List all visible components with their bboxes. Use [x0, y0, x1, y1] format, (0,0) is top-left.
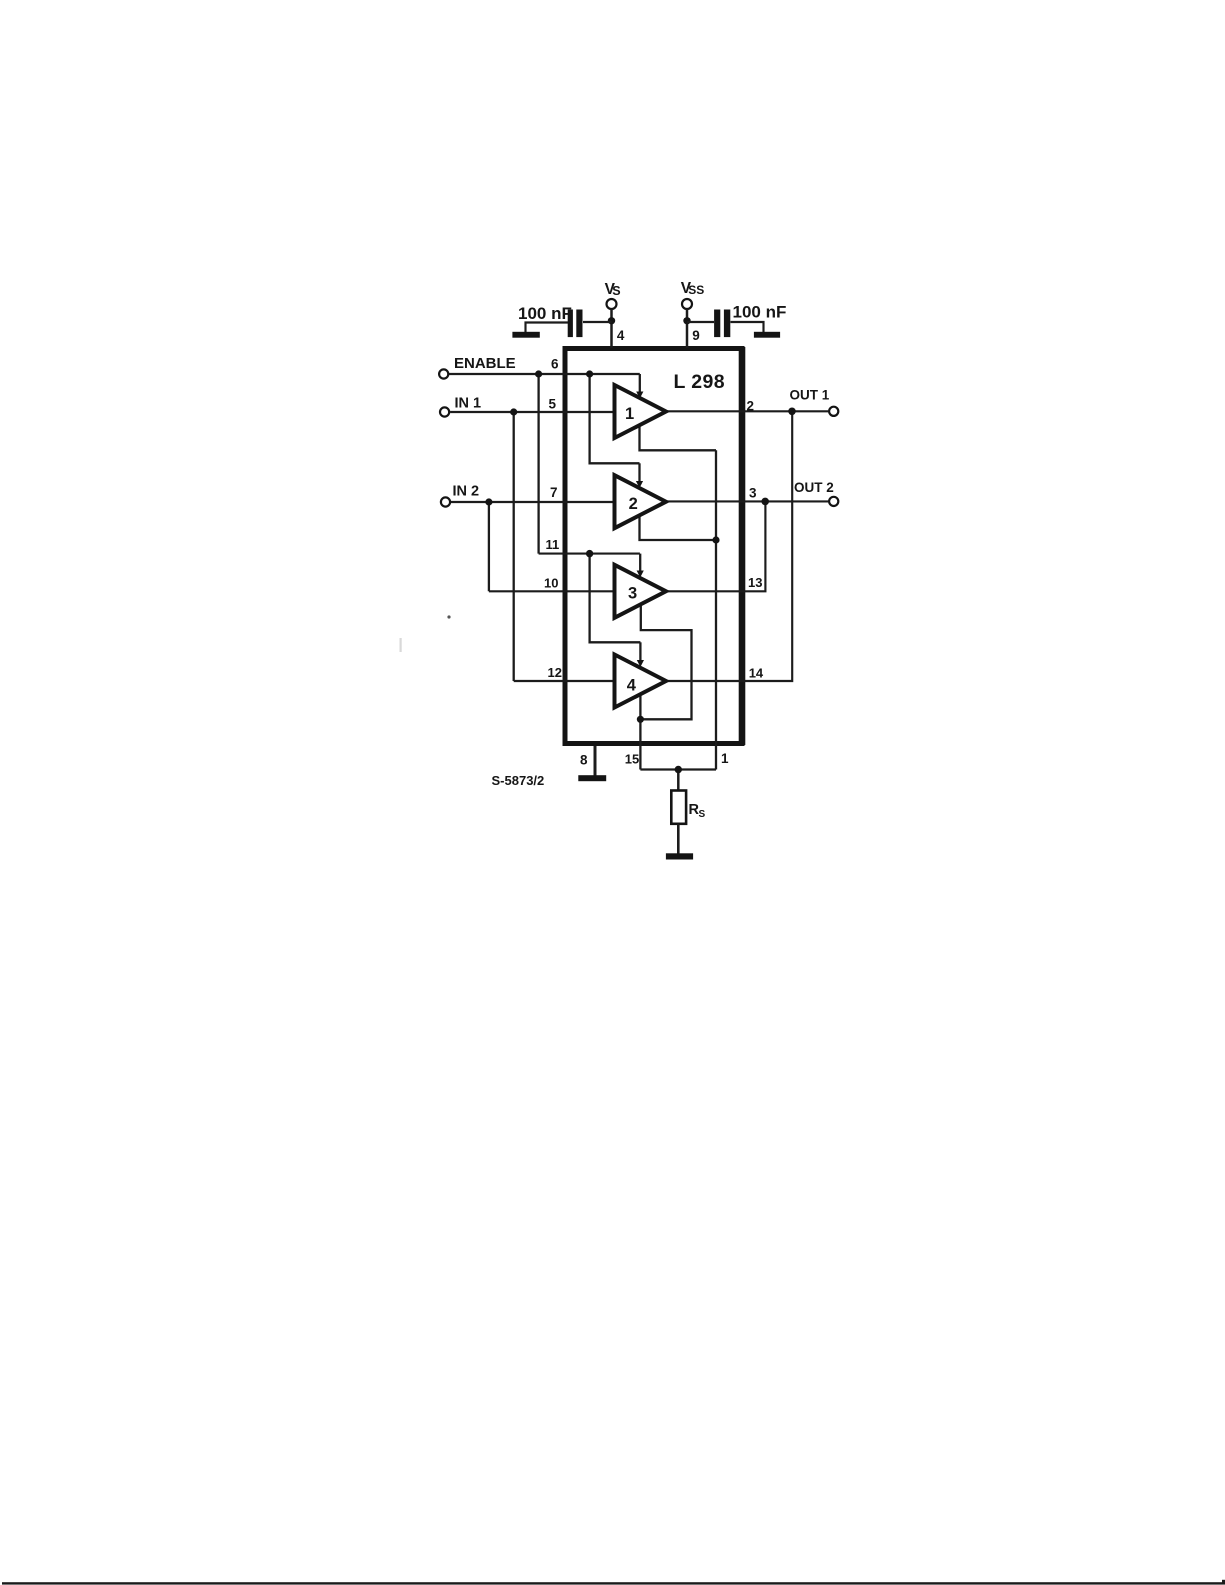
wire C2 right lead	[731, 322, 764, 332]
wire IN1 external vertical to pin 12	[513, 412, 515, 681]
wire enable arrow into amp 1	[639, 374, 641, 393]
wire ENABLE row pin 6	[449, 373, 640, 375]
wire enable arrow into amp 4	[639, 642, 641, 661]
svg-text:9: 9	[692, 328, 700, 343]
wire pin 12 row	[514, 680, 615, 682]
wire amp3 sense detour	[640, 604, 691, 720]
terminal OUT1	[829, 407, 838, 416]
svg-text:S: S	[699, 809, 706, 820]
terminal IN1	[440, 407, 449, 416]
wire IN1 row pin 5	[450, 411, 614, 413]
node IN1 junction pin 5	[510, 408, 517, 415]
wire amp4 sense to pin 15	[639, 694, 641, 770]
svg-text:12: 12	[548, 665, 562, 680]
wire IN2 row pin 7	[451, 501, 615, 503]
node Vs junction	[608, 317, 615, 324]
node Rs junction	[675, 766, 682, 773]
amp U2 driver 2	[615, 475, 667, 528]
svg-text:OUT 2: OUT 2	[794, 480, 834, 495]
IC right edge thickening	[739, 347, 746, 745]
wire ENABLE external vertical to pin 11	[537, 374, 539, 554]
supply Vss terminal	[682, 299, 692, 309]
capacitor C2 100nF right	[714, 310, 720, 338]
wire enable arrow into amp 3	[639, 554, 641, 572]
amp U1 driver 1	[615, 385, 667, 438]
wire Rs bottom	[677, 824, 680, 854]
node OUT1 junction	[788, 408, 796, 416]
svg-text:7: 7	[550, 485, 558, 500]
svg-text:S: S	[612, 284, 620, 298]
wire amp2 output to OUT2 pin 3	[666, 500, 828, 502]
node enable A internal junction	[586, 370, 593, 377]
wire enable branch to amp 2	[590, 374, 640, 463]
svg-text:2: 2	[629, 495, 638, 513]
wire enable branch to amp 4	[590, 554, 641, 643]
wire pin 10 row	[489, 590, 615, 592]
node ENABLE junction pin 6	[535, 370, 542, 377]
supply Vs terminal	[607, 299, 617, 309]
IC U1 L298 box	[565, 349, 742, 744]
wire C2 left lead	[687, 321, 714, 323]
svg-text:4: 4	[617, 328, 625, 343]
ground left cap	[512, 332, 539, 338]
svg-text:L 298: L 298	[674, 371, 726, 393]
svg-text:3: 3	[749, 486, 757, 501]
svg-text:IN 2: IN 2	[453, 484, 480, 500]
pin 8 ground wire	[594, 746, 597, 777]
svg-text:5: 5	[549, 397, 557, 412]
wire Rs top	[677, 770, 680, 792]
node sense bus A junction	[712, 536, 719, 543]
wire sense bus A to pin 1	[715, 450, 717, 769]
node enable B internal junction pin 11	[586, 550, 593, 557]
svg-text:8: 8	[580, 753, 588, 768]
svg-text:IN 1: IN 1	[455, 396, 482, 412]
wire amp1 sense drop	[640, 424, 717, 451]
wire amp3 output pin 13 up to OUT2	[666, 501, 765, 591]
terminal OUT2	[829, 497, 838, 506]
svg-text:6: 6	[551, 357, 559, 372]
svg-text:ENABLE: ENABLE	[454, 355, 516, 372]
capacitor C1 100nF left	[568, 310, 573, 338]
node sense bus B junction	[637, 716, 644, 723]
svg-text:4: 4	[627, 677, 637, 695]
svg-text:15: 15	[625, 752, 639, 767]
wire IN2 external vertical to pin 10	[488, 502, 490, 591]
wire amp1 output to OUT1 pin 2	[666, 410, 828, 412]
svg-text:S-5873/2: S-5873/2	[492, 773, 545, 788]
ground pin 8	[578, 775, 606, 781]
svg-text:1: 1	[721, 751, 729, 766]
svg-text:3: 3	[628, 585, 637, 603]
svg-text:2: 2	[747, 399, 755, 414]
wire Vss to pin 9	[686, 309, 689, 348]
svg-text:13: 13	[748, 575, 762, 590]
scan speck	[447, 615, 450, 618]
terminal IN2	[441, 497, 450, 506]
node Vss junction	[683, 317, 690, 324]
resistor Rs	[671, 791, 686, 824]
svg-text:100 nF: 100 nF	[733, 303, 787, 322]
node IN2 junction pin 7	[485, 498, 492, 505]
scan smear	[400, 638, 402, 652]
wire C1 right lead	[583, 321, 612, 323]
svg-text:100 nF: 100 nF	[518, 304, 572, 323]
wire Vs to pin 4	[610, 309, 613, 348]
ground Rs	[666, 853, 693, 859]
ground right cap	[754, 332, 780, 338]
terminal ENABLE	[439, 369, 448, 378]
wire pin 11 row	[539, 553, 640, 555]
wire enable arrow into amp 2	[638, 463, 640, 482]
page bottom rule	[2, 1582, 1225, 1584]
svg-text:SS: SS	[688, 283, 704, 297]
svg-text:OUT 1: OUT 1	[790, 388, 830, 403]
wire sense join below IC	[640, 768, 716, 770]
amp U4 driver 4	[615, 655, 667, 708]
svg-text:10: 10	[544, 576, 558, 591]
wire amp4 output pin 14 up to OUT1	[666, 411, 792, 681]
wire C1 left lead	[526, 323, 569, 333]
amp U3 driver 3	[615, 565, 667, 618]
svg-text:14: 14	[749, 666, 764, 681]
node OUT2 junction	[761, 498, 769, 506]
svg-text:11: 11	[546, 537, 560, 552]
svg-text:1: 1	[625, 405, 634, 423]
wire amp2 sense drop	[640, 514, 717, 541]
